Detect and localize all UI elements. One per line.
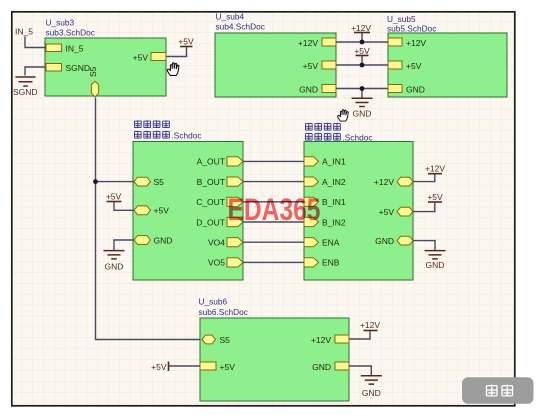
wire C_OUT to B_IN1: [243, 201, 304, 203]
svg-text:+5V: +5V: [106, 192, 122, 202]
wire SGND to port: [25, 67, 46, 76]
ground GND (U_sub6): [361, 376, 382, 398]
wire VO4 to ENA: [243, 241, 304, 243]
filename sub5.SchDoc: [387, 24, 436, 34]
svg-text:sub5.SchDoc: sub5.SchDoc: [387, 24, 436, 34]
ground GND (below rails): [352, 86, 373, 118]
svg-text:+5V: +5V: [406, 61, 422, 71]
title motor drive CJK: [305, 123, 340, 130]
svg-text:+5V: +5V: [178, 37, 194, 47]
sheet entry GND (U_sub4): [299, 84, 336, 94]
sheet entry +5V (isolation left): [134, 206, 169, 216]
junction S5: [93, 179, 98, 184]
sheet entry B_IN1 (motor drive left): [304, 197, 346, 207]
wire GND to isolation: [114, 240, 134, 250]
svg-text:+5V: +5V: [303, 61, 319, 71]
power +5V (U_sub6 left): [151, 362, 168, 372]
sheet entry VO4 (isolation right): [208, 238, 243, 248]
svg-text:GND: GND: [406, 84, 425, 94]
sheet entry GND (U_sub6): [312, 362, 349, 372]
sheet entry +12V (U_sub5): [388, 38, 426, 48]
sheet entry +5V (right edge U_sub3): [133, 53, 166, 63]
ground GND (motor drive): [425, 251, 446, 270]
filename sub3.SchDoc: [46, 28, 95, 38]
svg-text:S5: S5: [220, 335, 231, 345]
sheet entry +5V (U_sub5): [388, 61, 422, 71]
power +12V: [351, 23, 371, 44]
sheet symbol U_sub3: [45, 38, 166, 96]
power +5V (motor drive): [427, 192, 443, 202]
svg-text:+12V: +12V: [425, 164, 445, 174]
sheet entry S5 (bottom edge U_sub3): [88, 66, 99, 96]
svg-text:EDA365: EDA365: [228, 191, 321, 227]
svg-text:GND: GND: [353, 109, 372, 119]
svg-text:D_OUT: D_OUT: [196, 217, 225, 227]
wire +12V (U_sub6): [349, 331, 370, 339]
wire VO5 to ENB: [243, 261, 304, 263]
svg-text:+5V: +5V: [427, 192, 443, 202]
svg-text:GND: GND: [375, 236, 394, 246]
sheet entry A_IN1 (motor drive left): [304, 157, 346, 167]
svg-text:+5V: +5V: [151, 362, 167, 372]
svg-text:GND: GND: [312, 362, 331, 372]
cursor hand 2: [338, 110, 349, 121]
sheet entry +12V (motor drive right): [374, 177, 413, 187]
svg-text:+12V: +12V: [351, 23, 371, 33]
designator U_sub6: [199, 297, 228, 307]
svg-text:SGND: SGND: [66, 63, 91, 73]
svg-text:ENB: ENB: [322, 258, 340, 268]
wire GND rail: [336, 88, 388, 90]
sheet entry B_IN2 (motor drive left): [304, 217, 346, 227]
svg-text:+5V: +5V: [133, 53, 149, 63]
title isolation CJK: [134, 120, 169, 127]
power +12V (U_sub6): [360, 320, 380, 331]
filename sub6.SchDoc: [199, 307, 248, 317]
svg-text:GND: GND: [105, 262, 124, 272]
svg-text:U_sub4: U_sub4: [216, 12, 245, 22]
power +5V: [354, 46, 370, 67]
svg-text:GND: GND: [154, 235, 173, 245]
svg-text:+5V: +5V: [354, 46, 370, 56]
sheet entry IN_5: [46, 44, 84, 54]
svg-text:sub3.SchDoc: sub3.SchDoc: [46, 28, 95, 38]
svg-text:+12V: +12V: [406, 38, 426, 48]
sheet entry +12V (U_sub4): [298, 38, 336, 48]
wire +5V (motor drive): [413, 203, 435, 212]
svg-text:+12V: +12V: [298, 38, 318, 48]
wire IN_5 to port: [25, 37, 46, 48]
svg-text:+5V: +5V: [379, 207, 395, 217]
svg-text:IN_5: IN_5: [15, 27, 33, 37]
designator U_sub4: [216, 12, 245, 22]
svg-text:U_sub3: U_sub3: [46, 18, 75, 28]
power +12V (motor drive): [425, 164, 445, 174]
sheet entry A_IN2 (motor drive left): [304, 177, 346, 187]
sheet entry +5V (U_sub4): [303, 61, 336, 71]
wire GND (motor drive): [413, 241, 435, 250]
wire +5V to isolation: [114, 202, 134, 210]
wire +5V (U_sub6): [169, 365, 201, 367]
wire +5V port to power: [166, 47, 187, 56]
filename isolation .Schdoc: [134, 131, 201, 141]
svg-text:S5: S5: [154, 177, 165, 187]
svg-text:GND: GND: [426, 260, 445, 270]
login button: [462, 377, 534, 404]
svg-text:+12V: +12V: [374, 177, 394, 187]
net label IN_5: [15, 27, 33, 37]
sheet symbol U_sub4: [215, 33, 336, 97]
wire +12V rail: [336, 41, 388, 43]
sheet entry B_OUT (isolation right): [197, 177, 243, 187]
sheet entry GND (U_sub5): [388, 84, 425, 94]
sheet entry +5V (U_sub6): [200, 362, 235, 372]
wire S5 vertical trunk: [96, 98, 203, 340]
svg-text:S5: S5: [88, 66, 98, 77]
wire +5V rail: [336, 64, 388, 66]
svg-text:sub4.SchDoc: sub4.SchDoc: [216, 22, 265, 32]
svg-text:.Schdoc: .Schdoc: [343, 133, 373, 143]
svg-text:A_IN1: A_IN1: [322, 157, 346, 167]
wire GND (U_sub6): [349, 366, 371, 376]
sheet entry VO5 (isolation right): [208, 258, 243, 268]
svg-text:.Schdoc: .Schdoc: [172, 131, 202, 141]
wire B_OUT to A_IN2: [243, 181, 304, 183]
wire A_OUT to A_IN1: [243, 160, 304, 162]
svg-text:B_IN2: B_IN2: [322, 217, 346, 227]
power +5V: [178, 37, 194, 47]
sheet entry GND (motor drive right): [375, 236, 413, 246]
sheet entry S5 (U_sub6): [202, 335, 230, 345]
wire D_OUT to B_IN2: [243, 221, 304, 223]
sheet symbol U_sub5: [388, 33, 507, 97]
power +5V (isolation): [106, 192, 122, 202]
designator U_sub5: [387, 14, 416, 24]
sheet entry GND (isolation left): [134, 235, 172, 245]
wire S5 branch to isolation: [96, 181, 135, 183]
svg-text:B_IN1: B_IN1: [322, 197, 346, 207]
svg-text:C_OUT: C_OUT: [196, 197, 225, 207]
sheet entry A_OUT (isolation right): [197, 157, 243, 167]
sheet symbol DianJiQuDong (motor drive): [304, 142, 413, 281]
ground SGND: [13, 77, 38, 97]
svg-text:A_OUT: A_OUT: [197, 157, 225, 167]
sheet entry S5 (isolation left): [134, 177, 164, 187]
filename sub4.SchDoc: [216, 22, 265, 32]
svg-text:+12V: +12V: [311, 335, 331, 345]
svg-text:sub6.SchDoc: sub6.SchDoc: [199, 307, 248, 317]
svg-text:SGND: SGND: [13, 87, 38, 97]
ground GND (isolation): [104, 251, 125, 272]
svg-text:U_sub6: U_sub6: [199, 297, 228, 307]
sheet entry D_OUT (isolation right): [196, 217, 243, 227]
wire +12V (motor drive): [413, 174, 435, 181]
sheet symbol GeLiBuFen (isolation): [133, 142, 243, 281]
sheet entry SGND: [46, 63, 90, 73]
svg-text:+12V: +12V: [360, 320, 380, 330]
svg-text:GND: GND: [299, 84, 318, 94]
svg-text:+5V: +5V: [154, 206, 170, 216]
svg-text:GND: GND: [362, 388, 381, 398]
sheet entry +5V (motor drive right): [379, 207, 413, 217]
svg-text:ENA: ENA: [322, 238, 340, 248]
sheet entry ENB (motor drive left): [304, 258, 340, 268]
sheet entry ENA (motor drive left): [304, 238, 340, 248]
svg-text:VO4: VO4: [208, 238, 225, 248]
filename motor drive .Schdoc: [305, 133, 372, 143]
svg-text:B_OUT: B_OUT: [197, 177, 225, 187]
cursor hand 1: [167, 63, 179, 76]
svg-text:VO5: VO5: [208, 258, 225, 268]
watermark EDA365: [228, 191, 321, 227]
designator U_sub3: [46, 18, 75, 28]
svg-text:A_IN2: A_IN2: [322, 177, 346, 187]
sheet symbol U_sub6: [200, 318, 349, 401]
svg-text:IN_5: IN_5: [66, 44, 84, 54]
svg-text:+5V: +5V: [220, 362, 236, 372]
sheet entry C_OUT (isolation right): [196, 197, 243, 207]
svg-text:U_sub5: U_sub5: [387, 14, 416, 24]
sheet entry +12V (U_sub6): [311, 335, 349, 345]
